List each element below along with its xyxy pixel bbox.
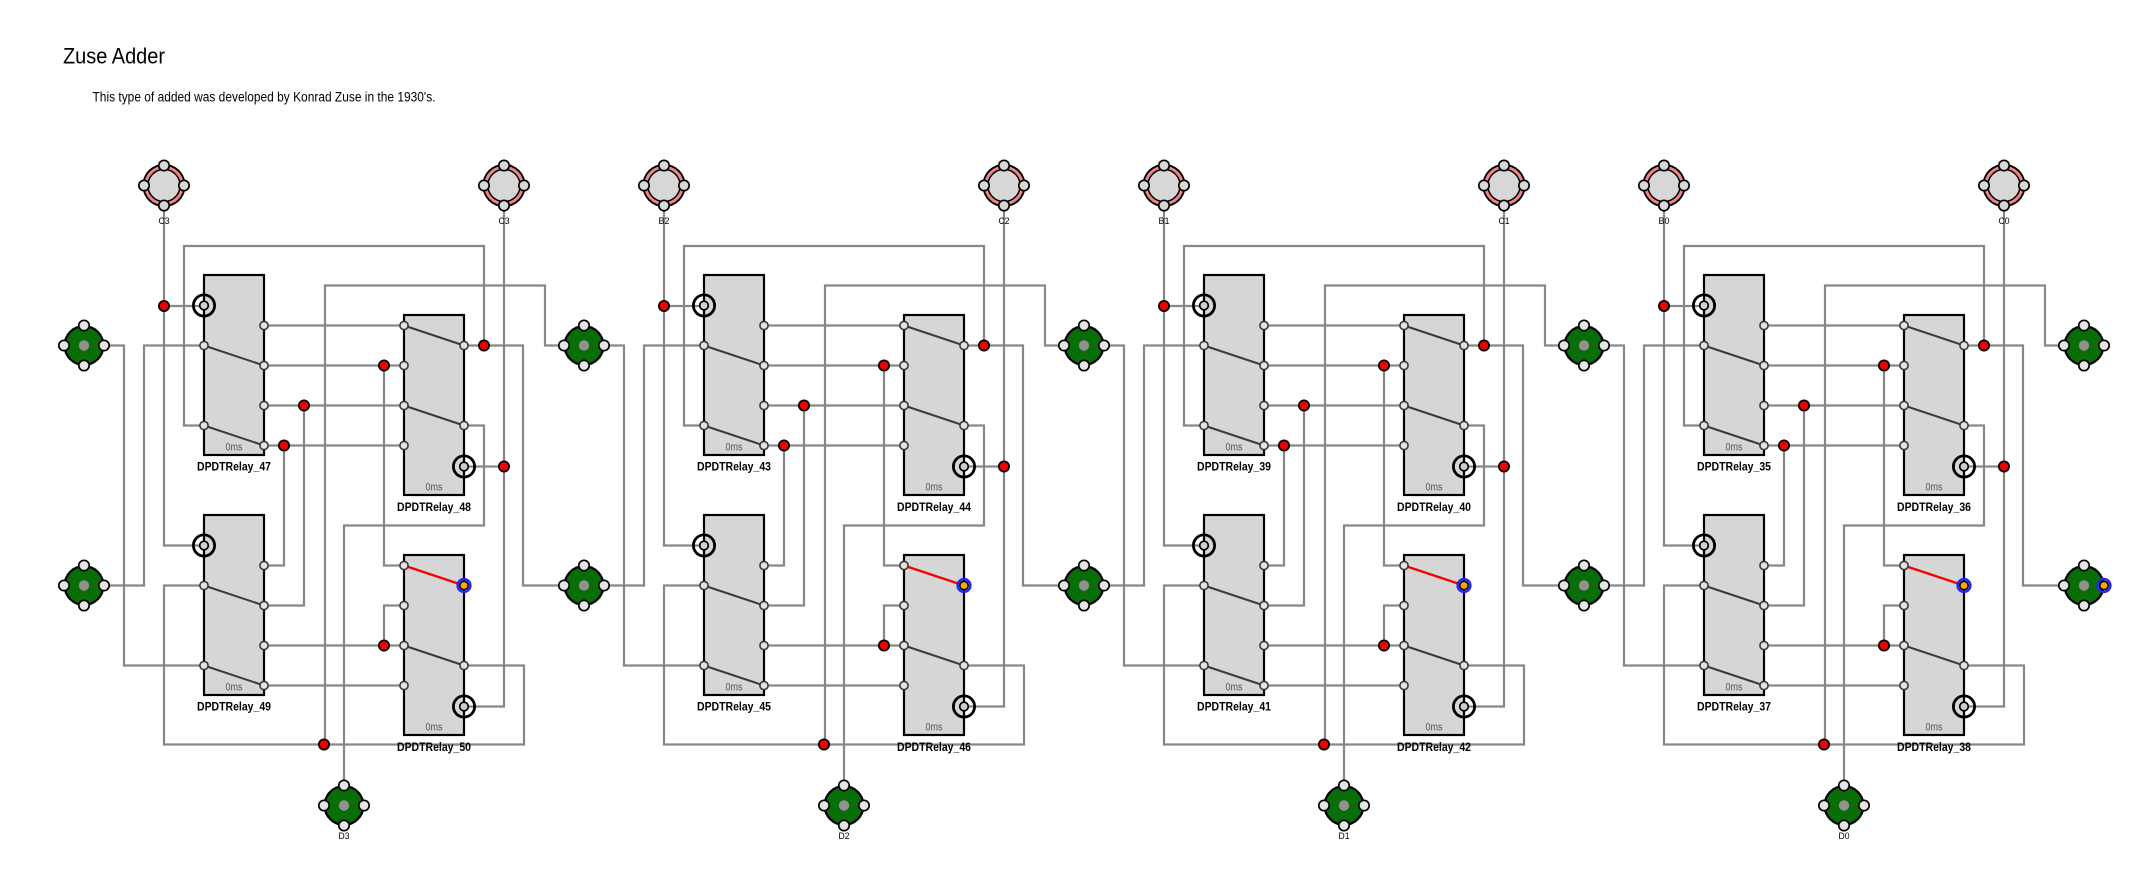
green carry terminal column 3 upper [1559, 320, 1609, 370]
svg-text:DPDTRelay_44: DPDTRelay_44 [897, 502, 972, 514]
green terminal column 3 lower [1559, 560, 1609, 610]
wire branch down to DPDTRelay_49 contact 2 [264, 406, 304, 606]
output terminal D0 [1819, 780, 1869, 841]
wire contact row 3 between DPDTRelay_47 and DPDTRelay_48 [264, 404, 404, 406]
junction C3 net at coil of DPDTRelay_47 [159, 301, 169, 311]
svg-text:0ms: 0ms [1426, 722, 1443, 734]
junction on contact row 2 [879, 360, 889, 370]
green terminal column 1 lower [559, 560, 609, 610]
wire DPDTRelay_43 lower common loop to node [684, 246, 984, 426]
wire branch to coil of DPDTRelay_48 [464, 465, 504, 467]
wire right green carry terminal feed [325, 286, 564, 745]
wire contact row between DPDTRelay_37 and DPDTRelay_38 [1764, 644, 1904, 646]
junction on contact row 4 [1279, 440, 1289, 450]
svg-text:DPDTRelay_38: DPDTRelay_38 [1897, 742, 1972, 754]
wire branch to coil of DPDTRelay_43 [664, 305, 704, 307]
wire DPDTRelay_49 upper common to DPDTRelay_50 lower common [164, 586, 524, 745]
wire contact row 3 between DPDTRelay_43 and DPDTRelay_44 [764, 404, 904, 406]
wire branch to coil of DPDTRelay_36 [1964, 465, 2004, 467]
green carry terminal column 2 upper [1059, 320, 1109, 370]
svg-text:0ms: 0ms [1726, 442, 1743, 454]
wire contact row 4 between DPDTRelay_35 and DPDTRelay_36 [1764, 444, 1904, 446]
junction B2 net at coil of DPDTRelay_43 [659, 301, 669, 311]
svg-text:DPDTRelay_50: DPDTRelay_50 [397, 742, 471, 754]
svg-text:DPDTRelay_41: DPDTRelay_41 [1197, 702, 1272, 714]
wire branch to coil of DPDTRelay_47 [164, 305, 204, 307]
junction on contact row 3 [1299, 400, 1309, 410]
wire branch down to DPDTRelay_46 contact 1 [884, 366, 904, 566]
junction carry net on bottom run [319, 739, 329, 749]
svg-text:0ms: 0ms [926, 722, 943, 734]
junction carry net on bottom run [1819, 739, 1829, 749]
svg-text:DPDTRelay_45: DPDTRelay_45 [697, 702, 772, 714]
DPDT relay DPDTRelay_36 [1897, 315, 1975, 514]
svg-text:DPDTRelay_47: DPDTRelay_47 [197, 462, 271, 474]
wire C3 input down to coil of DPDTRelay_50 [464, 206, 504, 707]
green terminal column 0 lower [59, 560, 109, 610]
junction on lower contact row [1379, 640, 1389, 650]
wire DPDTRelay_48 upper common to right green terminal [464, 346, 564, 586]
svg-text:0ms: 0ms [1926, 482, 1943, 494]
svg-text:0ms: 0ms [1726, 682, 1743, 694]
wire contact row 3 between DPDTRelay_35 and DPDTRelay_36 [1764, 404, 1904, 406]
wire DPDTRelay_47 lower common loop to node [184, 246, 484, 426]
wire lower green terminal to DPDTRelay_39 upper common [1104, 346, 1204, 586]
wire branch down to DPDTRelay_49 contact 1 [264, 446, 284, 566]
wire sum output D2 from DPDTRelay_44 lower common [844, 426, 984, 786]
output terminal D2 [819, 780, 869, 841]
junction C1 net at coil of DPDTRelay_40 [1499, 461, 1509, 471]
junction on contact row 4 [1779, 440, 1789, 450]
wire branch up to DPDTRelay_50 contact 2 [384, 606, 404, 646]
wire DPDTRelay_37 upper common to DPDTRelay_38 lower common [1664, 586, 2024, 745]
wire right green carry terminal feed [825, 286, 1064, 745]
svg-text:0ms: 0ms [1426, 482, 1443, 494]
wire branch down to DPDTRelay_42 contact 1 [1384, 366, 1404, 566]
wire B2 input down to coil of DPDTRelay_45 [664, 206, 704, 546]
svg-text:D0: D0 [1839, 831, 1850, 841]
DPDT relay DPDTRelay_46 [897, 555, 975, 754]
input terminal C3 [139, 160, 189, 226]
svg-text:C2: C2 [999, 216, 1010, 226]
junction on lower contact row [879, 640, 889, 650]
DPDT relay DPDTRelay_43 [693, 275, 771, 474]
wire contact row 1 between DPDTRelay_35 and DPDTRelay_36 [1764, 324, 1904, 326]
wire DPDTRelay_40 upper common to right green terminal [1464, 346, 1564, 586]
svg-text:DPDTRelay_36: DPDTRelay_36 [1897, 502, 1971, 514]
wire contact row 2 between DPDTRelay_39 and DPDTRelay_40 [1264, 364, 1404, 366]
wire branch to coil of DPDTRelay_44 [964, 465, 1004, 467]
DPDT relay DPDTRelay_49 [193, 515, 271, 714]
wire branch down to DPDTRelay_45 contact 1 [764, 446, 784, 566]
junction C0 net at coil of DPDTRelay_36 [1999, 461, 2009, 471]
green terminal column 4 lower [2059, 560, 2111, 610]
wire lower green terminal to DPDTRelay_43 upper common [604, 346, 704, 586]
junction on contact row 3 [1799, 400, 1809, 410]
junction node at DPDTRelay_36 upper common [1979, 340, 1989, 350]
svg-text:0ms: 0ms [926, 482, 943, 494]
svg-text:DPDTRelay_46: DPDTRelay_46 [897, 742, 971, 754]
input terminal C0 [1979, 160, 2029, 226]
wire bottom contact row between DPDTRelay_45 and DPDTRelay_46 [764, 684, 904, 686]
wire contact row 4 between DPDTRelay_39 and DPDTRelay_40 [1264, 444, 1404, 446]
svg-text:B1: B1 [1159, 216, 1170, 226]
wire C0 input down to coil of DPDTRelay_38 [1964, 206, 2004, 707]
svg-text:C1: C1 [1499, 216, 1510, 226]
junction on contact row 4 [779, 440, 789, 450]
wire right green carry terminal feed [1825, 286, 2064, 745]
wire branch up to DPDTRelay_46 contact 2 [884, 606, 904, 646]
green carry terminal column 1 upper [559, 320, 609, 370]
junction B0 net at coil of DPDTRelay_35 [1659, 301, 1669, 311]
green carry terminal column 4 upper [2059, 320, 2109, 370]
junction C3 net at coil of DPDTRelay_48 [499, 461, 509, 471]
wire contact row 4 between DPDTRelay_47 and DPDTRelay_48 [264, 444, 404, 446]
svg-text:0ms: 0ms [1926, 722, 1943, 734]
wire right green carry terminal feed [1325, 286, 1564, 745]
input terminal B0 [1639, 160, 1689, 226]
wire B0 input down to coil of DPDTRelay_37 [1664, 206, 1704, 546]
wire carry terminal to DPDTRelay_49 lower common [104, 346, 204, 666]
svg-text:DPDTRelay_37: DPDTRelay_37 [1697, 702, 1771, 714]
svg-text:DPDTRelay_48: DPDTRelay_48 [397, 502, 472, 514]
DPDT relay DPDTRelay_37 [1693, 515, 1771, 714]
svg-text:0ms: 0ms [1226, 442, 1243, 454]
junction on contact row 3 [299, 400, 309, 410]
output terminal D1 [1319, 780, 1369, 841]
wire B1 input down to coil of DPDTRelay_41 [1164, 206, 1204, 546]
junction on contact row 2 [1879, 360, 1889, 370]
junction B1 net at coil of DPDTRelay_39 [1159, 301, 1169, 311]
output terminal D3 [319, 780, 369, 841]
svg-text:C3: C3 [499, 216, 510, 226]
input terminal B2 [639, 160, 689, 226]
input terminal B1 [1139, 160, 1189, 226]
svg-text:DPDTRelay_35: DPDTRelay_35 [1697, 462, 1772, 474]
wire branch down to DPDTRelay_38 contact 1 [1884, 366, 1904, 566]
input terminal C2 [979, 160, 1029, 226]
wire DPDTRelay_41 upper common to DPDTRelay_42 lower common [1164, 586, 1524, 745]
svg-text:0ms: 0ms [726, 442, 743, 454]
wire contact row 3 between DPDTRelay_39 and DPDTRelay_40 [1264, 404, 1404, 406]
green terminal column 2 lower [1059, 560, 1109, 610]
DPDT relay DPDTRelay_50 [397, 555, 475, 754]
junction C2 net at coil of DPDTRelay_44 [999, 461, 1009, 471]
wire sum output D3 from DPDTRelay_48 lower common [344, 426, 484, 786]
wire bottom contact row between DPDTRelay_41 and DPDTRelay_42 [1264, 684, 1404, 686]
junction on contact row 4 [279, 440, 289, 450]
wire DPDTRelay_44 upper common to right green terminal [964, 346, 1064, 586]
wire contact row 2 between DPDTRelay_35 and DPDTRelay_36 [1764, 364, 1904, 366]
svg-text:Zuse Adder: Zuse Adder [63, 44, 165, 69]
wire carry terminal to DPDTRelay_41 lower common [1104, 346, 1204, 666]
junction on lower contact row [1879, 640, 1889, 650]
svg-text:D3: D3 [339, 831, 350, 841]
DPDT relay DPDTRelay_44 [897, 315, 975, 514]
wire DPDTRelay_36 upper common to right green terminal [1964, 346, 2064, 586]
DPDT relay DPDTRelay_42 [1397, 555, 1475, 754]
wire contact row between DPDTRelay_45 and DPDTRelay_46 [764, 644, 904, 646]
wire carry terminal to DPDTRelay_37 lower common [1604, 346, 1704, 666]
wire bottom contact row between DPDTRelay_49 and DPDTRelay_50 [264, 684, 404, 686]
wire C1 input down to coil of DPDTRelay_42 [1464, 206, 1504, 707]
wire contact row 1 between DPDTRelay_43 and DPDTRelay_44 [764, 324, 904, 326]
svg-text:0ms: 0ms [426, 722, 443, 734]
junction on contact row 3 [799, 400, 809, 410]
DPDT relay DPDTRelay_48 [397, 315, 475, 514]
svg-text:DPDTRelay_42: DPDTRelay_42 [1397, 742, 1471, 754]
wire contact row 2 between DPDTRelay_47 and DPDTRelay_48 [264, 364, 404, 366]
wire lower green terminal to DPDTRelay_47 upper common [104, 346, 204, 586]
junction on lower contact row [379, 640, 389, 650]
svg-text:C0: C0 [1999, 216, 2010, 226]
svg-text:D1: D1 [1339, 831, 1350, 841]
green carry terminal column 0 upper [59, 320, 109, 370]
wire contact row 1 between DPDTRelay_39 and DPDTRelay_40 [1264, 324, 1404, 326]
svg-text:0ms: 0ms [1226, 682, 1243, 694]
svg-text:0ms: 0ms [226, 442, 243, 454]
input terminal C1 [1479, 160, 1529, 226]
wire DPDTRelay_35 lower common loop to node [1684, 246, 1984, 426]
wire C2 input down to coil of DPDTRelay_46 [964, 206, 1004, 707]
wire contact row 4 between DPDTRelay_43 and DPDTRelay_44 [764, 444, 904, 446]
wire contact row 2 between DPDTRelay_43 and DPDTRelay_44 [764, 364, 904, 366]
svg-text:0ms: 0ms [426, 482, 443, 494]
wire branch down to DPDTRelay_41 contact 2 [1264, 406, 1304, 606]
junction on contact row 2 [1379, 360, 1389, 370]
wire bottom contact row between DPDTRelay_37 and DPDTRelay_38 [1764, 684, 1904, 686]
wire DPDTRelay_45 upper common to DPDTRelay_46 lower common [664, 586, 1024, 745]
DPDT relay DPDTRelay_47 [193, 275, 271, 474]
wire branch up to DPDTRelay_42 contact 2 [1384, 606, 1404, 646]
svg-text:DPDTRelay_49: DPDTRelay_49 [197, 702, 271, 714]
wire branch down to DPDTRelay_37 contact 1 [1764, 446, 1784, 566]
junction carry net on bottom run [1319, 739, 1329, 749]
wire branch down to DPDTRelay_45 contact 2 [764, 406, 804, 606]
DPDT relay DPDTRelay_35 [1693, 275, 1771, 474]
junction node at DPDTRelay_40 upper common [1479, 340, 1489, 350]
wire contact row 1 between DPDTRelay_47 and DPDTRelay_48 [264, 324, 404, 326]
wire sum output D0 from DPDTRelay_36 lower common [1844, 426, 1984, 786]
DPDT relay DPDTRelay_40 [1397, 315, 1475, 514]
DPDT relay DPDTRelay_41 [1193, 515, 1271, 714]
wire contact row between DPDTRelay_49 and DPDTRelay_50 [264, 644, 404, 646]
DPDT relay DPDTRelay_39 [1193, 275, 1271, 474]
wire DPDTRelay_39 lower common loop to node [1184, 246, 1484, 426]
svg-text:DPDTRelay_39: DPDTRelay_39 [1197, 462, 1271, 474]
wire carry terminal to DPDTRelay_45 lower common [604, 346, 704, 666]
input terminal C3 [479, 160, 529, 226]
wire branch down to DPDTRelay_50 contact 1 [384, 366, 404, 566]
svg-text:0ms: 0ms [226, 682, 243, 694]
junction on contact row 2 [379, 360, 389, 370]
svg-text:C3: C3 [159, 216, 170, 226]
wire branch down to DPDTRelay_41 contact 1 [1264, 446, 1284, 566]
DPDT relay DPDTRelay_38 [1897, 555, 1975, 754]
svg-text:B2: B2 [659, 216, 670, 226]
junction node at DPDTRelay_44 upper common [979, 340, 989, 350]
svg-text:This type of added was develop: This type of added was developed by Konr… [93, 90, 436, 105]
wire sum output D1 from DPDTRelay_40 lower common [1344, 426, 1484, 786]
DPDT relay DPDTRelay_45 [693, 515, 771, 714]
junction carry net on bottom run [819, 739, 829, 749]
wire C3 input down to coil of DPDTRelay_49 [164, 206, 204, 546]
svg-text:B0: B0 [1659, 216, 1670, 226]
svg-text:DPDTRelay_40: DPDTRelay_40 [1397, 502, 1471, 514]
junction node at DPDTRelay_48 upper common [479, 340, 489, 350]
svg-text:D2: D2 [839, 831, 850, 841]
wire branch up to DPDTRelay_38 contact 2 [1884, 606, 1904, 646]
wire contact row between DPDTRelay_41 and DPDTRelay_42 [1264, 644, 1404, 646]
wire lower green terminal to DPDTRelay_35 upper common [1604, 346, 1704, 586]
wire branch to coil of DPDTRelay_40 [1464, 465, 1504, 467]
svg-text:DPDTRelay_43: DPDTRelay_43 [697, 462, 771, 474]
wire branch to coil of DPDTRelay_39 [1164, 305, 1204, 307]
svg-text:0ms: 0ms [726, 682, 743, 694]
wire branch to coil of DPDTRelay_35 [1664, 305, 1704, 307]
wire branch down to DPDTRelay_37 contact 2 [1764, 406, 1804, 606]
